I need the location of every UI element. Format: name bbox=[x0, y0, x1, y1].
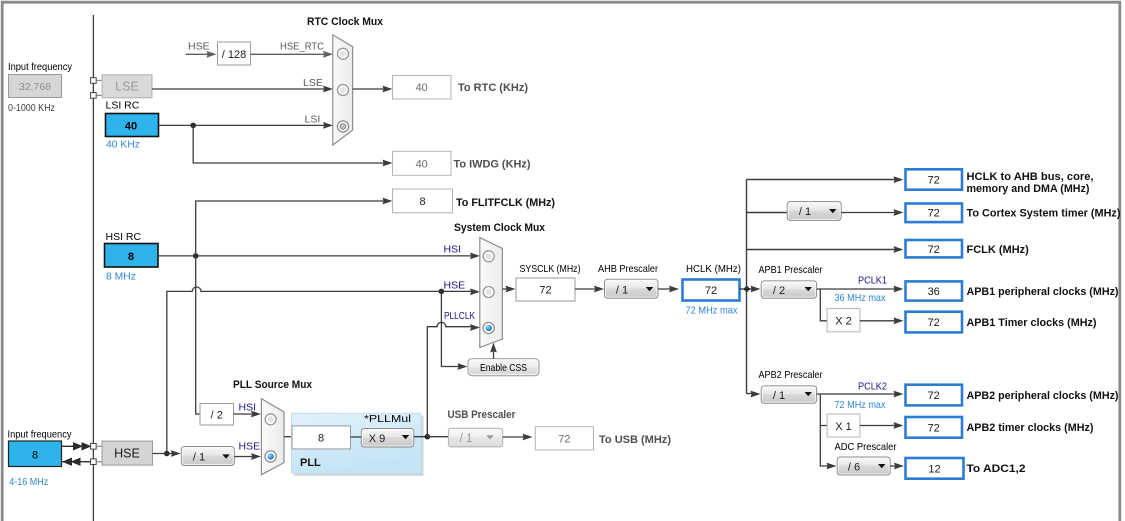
svg-text:32.768: 32.768 bbox=[19, 81, 51, 93]
pin square LSE bottom bbox=[91, 93, 97, 99]
box To IWDG 40 bbox=[393, 151, 452, 175]
box LSE (disabled) bbox=[102, 75, 152, 98]
arrowhead back 2 bbox=[71, 458, 81, 466]
wire input to HSE pin (out) bbox=[62, 445, 91, 447]
wire /2 to pll mux bbox=[234, 413, 254, 415]
dropdown AHB /1 bbox=[605, 279, 659, 298]
svg-text:SYSCLK (MHz): SYSCLK (MHz) bbox=[520, 263, 581, 275]
arrowhead HSE into pll mux bbox=[251, 453, 261, 460]
svg-text:To IWDG (KHz): To IWDG (KHz) bbox=[454, 159, 531, 171]
svg-text:4-16 MHz: 4-16 MHz bbox=[9, 476, 48, 488]
wire APB1 to PCLK1 box bbox=[817, 288, 896, 290]
wire LSI to RTC mux bbox=[159, 124, 325, 126]
svg-text:RTC Clock Mux: RTC Clock Mux bbox=[307, 16, 384, 28]
svg-text:/ 1: / 1 bbox=[616, 284, 628, 296]
arrowhead into IWDG box bbox=[383, 160, 393, 167]
box HSI RC 8 bbox=[105, 244, 159, 268]
svg-text:Input frequency: Input frequency bbox=[8, 61, 73, 73]
svg-text:To ADC1,2: To ADC1,2 bbox=[967, 463, 1026, 475]
svg-text:/ 128: / 128 bbox=[222, 49, 246, 61]
box HCLK 72 bbox=[683, 280, 740, 301]
wire APB2 to PCLK2 box bbox=[817, 393, 896, 395]
box X2 bbox=[827, 309, 860, 332]
svg-text:72: 72 bbox=[558, 434, 570, 446]
svg-text:X 9: X 9 bbox=[369, 433, 386, 445]
wire /1 to pll mux bbox=[234, 456, 253, 458]
svg-text:72: 72 bbox=[928, 317, 940, 329]
svg-text:/ 1: / 1 bbox=[773, 390, 785, 402]
arrowhead into /128 bbox=[207, 51, 217, 58]
arrowhead into APB1 periph box bbox=[894, 286, 904, 293]
box To FLITFCLK 8 bbox=[393, 189, 453, 213]
dropdown USB /1 (disabled) bbox=[448, 428, 502, 447]
pin square LSE top bbox=[91, 78, 97, 84]
svg-text:APB2 Prescaler: APB2 Prescaler bbox=[759, 369, 823, 381]
svg-text:8: 8 bbox=[128, 251, 134, 263]
mux System Clock shape bbox=[480, 238, 503, 348]
arrowhead into To RTC box bbox=[383, 86, 393, 93]
svg-text:HSE: HSE bbox=[114, 447, 140, 461]
box Cortex timer 72 bbox=[906, 204, 963, 223]
svg-text:12: 12 bbox=[928, 463, 940, 475]
svg-text:APB1 peripheral clocks (MHz): APB1 peripheral clocks (MHz) bbox=[967, 286, 1119, 298]
dropdown HSE /1 divider bbox=[181, 447, 234, 466]
pin square HSE bottom bbox=[91, 459, 97, 465]
svg-text:LSI: LSI bbox=[305, 114, 321, 126]
svg-text:ADC Prescaler: ADC Prescaler bbox=[835, 441, 897, 453]
wire HCLK bus vertical bbox=[746, 180, 748, 394]
wire LSE to RTC mux bbox=[152, 88, 325, 90]
wire HSI branch to FLITFCLK bbox=[196, 201, 385, 256]
wire HSI branch down to /2 divider bbox=[196, 256, 200, 414]
wire HSE riser to system mux (with hop over HSI line) bbox=[167, 287, 472, 454]
svg-text:72: 72 bbox=[539, 285, 551, 297]
svg-text:/ 1: / 1 bbox=[799, 206, 811, 218]
arrowhead into FCLK box bbox=[894, 246, 904, 253]
svg-text:PLLCLK: PLLCLK bbox=[444, 310, 475, 322]
wire HSE box to /1 divider bbox=[153, 453, 174, 455]
svg-text:/ 1: / 1 bbox=[193, 452, 205, 464]
svg-text:memory and DMA (MHz): memory and DMA (MHz) bbox=[967, 183, 1090, 195]
svg-text:72: 72 bbox=[928, 390, 940, 402]
svg-text:8 MHz: 8 MHz bbox=[106, 271, 136, 283]
svg-text:HSI: HSI bbox=[444, 244, 462, 256]
box To USB 72 bbox=[535, 427, 593, 450]
arrowhead into APB1 prescaler bbox=[751, 286, 761, 293]
arrowhead out 1 bbox=[73, 442, 83, 450]
svg-text:72: 72 bbox=[928, 208, 940, 220]
wire RTC mux to To RTC box bbox=[353, 88, 385, 90]
arrowhead HSI into pll mux bbox=[251, 411, 261, 418]
svg-text:To FLITFCLK (MHz): To FLITFCLK (MHz) bbox=[456, 197, 555, 209]
radio LSE (off) bbox=[338, 85, 349, 96]
arrowhead into HCLK box bbox=[669, 286, 679, 293]
svg-text:/ 6: / 6 bbox=[848, 462, 860, 474]
dropdown APB2 /1 bbox=[761, 386, 816, 403]
svg-text:8: 8 bbox=[419, 196, 425, 208]
box HSE bbox=[102, 441, 153, 465]
svg-text:HSI RC: HSI RC bbox=[106, 231, 142, 243]
mux RTC shape bbox=[333, 35, 353, 145]
wire HSE pin to input (back) bbox=[62, 461, 91, 463]
svg-text:0-1000 KHz: 0-1000 KHz bbox=[8, 102, 55, 114]
svg-text:Enable CSS: Enable CSS bbox=[480, 362, 527, 374]
arrowhead into USB box bbox=[523, 434, 533, 441]
wire bus to cortex prescaler bbox=[747, 212, 788, 214]
radio HSE (selected) bbox=[265, 451, 276, 462]
wire bus to FCLK row bbox=[747, 249, 897, 251]
wire cortex prescaler to box bbox=[841, 212, 896, 214]
svg-text:AHB Prescaler: AHB Prescaler bbox=[598, 263, 658, 275]
radio HSI (off) bbox=[483, 251, 494, 262]
wire squares to HSE box bbox=[96, 446, 102, 461]
box PLLM input 8 bbox=[292, 426, 351, 449]
box To ADC 12 bbox=[906, 458, 964, 479]
svg-text:System Clock Mux: System Clock Mux bbox=[454, 222, 546, 234]
box SYSCLK 72 bbox=[516, 278, 575, 301]
svg-text:72 MHz max: 72 MHz max bbox=[686, 305, 739, 317]
radio HSE_RTC (off) bbox=[338, 48, 349, 59]
arrowhead LSI into mux bbox=[323, 122, 333, 129]
wire bus to HCLK AHB row bbox=[747, 179, 897, 181]
box APB1 timer 72 bbox=[906, 312, 963, 333]
svg-text:HSE: HSE bbox=[444, 280, 466, 292]
svg-text:To RTC (KHz): To RTC (KHz) bbox=[458, 82, 528, 94]
arrowhead PLLCLK into system mux bbox=[470, 324, 480, 331]
arrowhead into ADC box bbox=[894, 463, 904, 470]
wire CSS branch down to Enable CSS bbox=[441, 291, 460, 366]
wire APB2 branch down bbox=[820, 394, 828, 466]
arrowhead into FLITFCLK box bbox=[383, 198, 393, 205]
arrowhead into /1 divider bbox=[171, 450, 181, 457]
svg-text:To Cortex System timer (MHz): To Cortex System timer (MHz) bbox=[967, 208, 1121, 220]
svg-text:/ 2: / 2 bbox=[773, 285, 785, 297]
chip boundary line bbox=[92, 15, 94, 521]
svg-text:40 KHz: 40 KHz bbox=[106, 139, 140, 151]
svg-text:40: 40 bbox=[416, 158, 428, 170]
box X1 bbox=[827, 414, 860, 437]
box HSE input 8 bbox=[9, 441, 62, 467]
svg-text:72: 72 bbox=[928, 244, 940, 256]
arrowhead into ADC prescaler bbox=[827, 463, 837, 470]
arrowhead out 2 bbox=[82, 442, 92, 450]
wire USB prescaler to USB box bbox=[503, 436, 525, 438]
wire HSE stub to /128 bbox=[186, 53, 210, 55]
wire X9 to USB junction bbox=[414, 436, 449, 438]
pin square HSE top bbox=[91, 444, 97, 450]
radio PLLCLK (selected) bbox=[483, 322, 494, 333]
svg-text:/ 2: / 2 bbox=[211, 410, 223, 422]
dropdown Cortex /1 bbox=[787, 202, 841, 221]
svg-text:PLL Source Mux: PLL Source Mux bbox=[233, 379, 313, 391]
svg-text:HSE_RTC: HSE_RTC bbox=[280, 41, 324, 53]
svg-text:PLL: PLL bbox=[300, 457, 321, 469]
dropdown APB1 /2 bbox=[761, 281, 816, 298]
svg-text:LSE: LSE bbox=[115, 80, 139, 94]
wire 8 box to X9 bbox=[351, 436, 362, 438]
dropdown ADC /6 bbox=[837, 457, 890, 475]
svg-text:40: 40 bbox=[416, 82, 428, 94]
arrowhead into cortex box bbox=[894, 209, 904, 216]
svg-text:HSE: HSE bbox=[188, 41, 210, 53]
node diamond HCLK bbox=[743, 286, 750, 293]
radio HSE (off) bbox=[483, 287, 494, 298]
wire PLLCLK riser to system mux (hop over CSS line) bbox=[427, 322, 471, 436]
box APB2 periph 72 bbox=[906, 385, 963, 406]
mux PLL Source shape bbox=[261, 399, 284, 475]
svg-text:8: 8 bbox=[318, 433, 324, 445]
box 32.768 input bbox=[9, 75, 62, 98]
svg-text:36: 36 bbox=[928, 286, 940, 298]
arrowhead HSE into system mux bbox=[470, 288, 480, 295]
wire ADC prescaler to box bbox=[890, 465, 896, 467]
svg-text:72: 72 bbox=[705, 285, 717, 297]
svg-text:LSI RC: LSI RC bbox=[106, 100, 140, 112]
PLL panel bbox=[292, 413, 424, 476]
svg-text:X 2: X 2 bbox=[835, 316, 852, 328]
wire pll mux to PLL block bbox=[284, 436, 292, 438]
svg-text:Input frequency: Input frequency bbox=[8, 429, 73, 441]
wire squares to LSE box bbox=[96, 81, 102, 96]
wire APB1 branch to X2 bbox=[820, 289, 827, 321]
svg-text:PCLK1: PCLK1 bbox=[858, 275, 887, 287]
svg-text:8: 8 bbox=[32, 450, 38, 462]
box APB1 periph 36 bbox=[906, 281, 963, 300]
svg-text:PCLK2: PCLK2 bbox=[858, 381, 887, 393]
svg-text:APB2 peripheral clocks (MHz): APB2 peripheral clocks (MHz) bbox=[967, 390, 1119, 402]
node HSI branch bbox=[193, 253, 199, 259]
wire bus corner to APB2 bbox=[747, 393, 753, 395]
arrowhead into APB2 timer box bbox=[894, 422, 904, 429]
arrowhead into SYSCLK box bbox=[506, 286, 516, 293]
wire Enable CSS up to mux bbox=[493, 350, 495, 359]
arrowhead into APB2 periph box bbox=[894, 391, 904, 398]
wire X2 to APB1 timer box bbox=[860, 320, 896, 322]
arrowhead up into mux bbox=[490, 343, 497, 353]
node HSE branch bbox=[164, 451, 170, 457]
radio HSI (off) bbox=[265, 414, 276, 425]
svg-text:72: 72 bbox=[928, 422, 940, 434]
box To RTC 40 bbox=[393, 76, 452, 100]
svg-text:HCLK (MHz): HCLK (MHz) bbox=[686, 263, 741, 275]
svg-text:72: 72 bbox=[928, 175, 940, 187]
wire LSI branch to IWDG bbox=[193, 125, 385, 163]
node CSS branch bbox=[439, 289, 445, 295]
svg-text:FCLK (MHz): FCLK (MHz) bbox=[967, 244, 1030, 256]
wire /128 to RTC mux bbox=[251, 53, 325, 55]
wire mux to SYSCLK box bbox=[502, 288, 508, 290]
svg-text:36 MHz max: 36 MHz max bbox=[835, 292, 887, 304]
node PLL output bbox=[425, 434, 431, 440]
svg-text:X 1: X 1 bbox=[835, 421, 852, 433]
arrowhead HSE_RTC into mux bbox=[323, 51, 333, 58]
svg-text:HSE: HSE bbox=[239, 441, 261, 453]
wire SYSCLK to AHB prescaler bbox=[575, 288, 597, 290]
wire X1 to APB2 timer box bbox=[860, 425, 896, 427]
svg-text:72 MHz max: 72 MHz max bbox=[835, 399, 887, 411]
svg-text:*PLLMul: *PLLMul bbox=[364, 413, 411, 425]
radio LSI (selected) bbox=[337, 121, 348, 132]
svg-text:To USB (MHz): To USB (MHz) bbox=[599, 434, 671, 446]
svg-text:APB1 Prescaler: APB1 Prescaler bbox=[759, 264, 823, 276]
arrowhead into APB1 timer box bbox=[894, 317, 904, 324]
box APB2 timer 72 bbox=[906, 417, 963, 438]
svg-text:USB Prescaler: USB Prescaler bbox=[448, 409, 517, 421]
wire HCLK to bus bbox=[740, 288, 754, 290]
svg-text:APB1 Timer clocks (MHz): APB1 Timer clocks (MHz) bbox=[967, 317, 1097, 329]
node LSI branch bbox=[190, 123, 196, 129]
wire branch to X1 bbox=[820, 425, 827, 427]
svg-text:/ 1: / 1 bbox=[460, 433, 473, 445]
box LSI 40 bbox=[106, 114, 159, 137]
wire AHB to HCLK box bbox=[658, 288, 672, 290]
arrowhead back 1 bbox=[62, 458, 72, 466]
svg-text:HCLK to AHB bus, core,: HCLK to AHB bus, core, bbox=[967, 171, 1094, 183]
box HCLK AHB 72 bbox=[906, 169, 963, 189]
svg-text:APB2 timer clocks (MHz): APB2 timer clocks (MHz) bbox=[967, 422, 1094, 434]
arrowhead into HCLK AHB box bbox=[894, 176, 904, 183]
svg-text:LSE: LSE bbox=[303, 77, 323, 89]
arrowhead LSE into mux bbox=[323, 86, 333, 93]
arrowhead into Enable CSS bbox=[458, 363, 468, 370]
label HCLK to AHB bus, core, memory and DMA (MHz) bbox=[967, 171, 1094, 195]
arrowhead into AHB prescaler bbox=[594, 286, 604, 293]
svg-text:40: 40 bbox=[125, 121, 137, 133]
dropdown PLLMul X9 bbox=[361, 429, 414, 448]
enable css button bbox=[468, 359, 539, 376]
arrowhead into APB2 prescaler bbox=[751, 391, 761, 398]
divider /128 box bbox=[218, 42, 251, 65]
divider /2 box bbox=[200, 404, 234, 426]
box FCLK 72 bbox=[906, 240, 963, 257]
wire HSI to system mux bbox=[158, 255, 472, 257]
arrowhead HSI into system mux bbox=[470, 253, 480, 260]
